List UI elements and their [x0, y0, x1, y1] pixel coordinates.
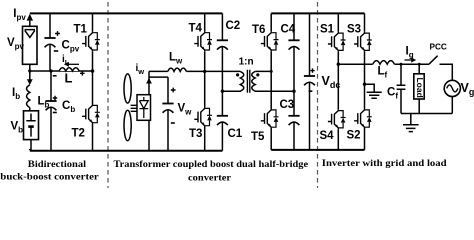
- svg-text:S1: S1: [320, 24, 335, 36]
- svg-text:T4: T4: [189, 23, 203, 35]
- svg-text:Transformer coupled boost dual: Transformer coupled boost dual half-brid…: [114, 159, 309, 170]
- svg-text:PCC: PCC: [430, 43, 447, 52]
- svg-text:Load: Load: [415, 78, 425, 98]
- svg-text:C2: C2: [226, 20, 241, 32]
- svg-text:converter: converter: [188, 173, 232, 184]
- svg-text:S2: S2: [347, 130, 361, 142]
- svg-text:buck-boost converter: buck-boost converter: [0, 171, 99, 182]
- svg-text:T6: T6: [252, 24, 265, 36]
- svg-text:Bidirectional: Bidirectional: [28, 159, 87, 170]
- svg-text:1:n: 1:n: [239, 57, 254, 68]
- svg-text:Inverter with grid and load: Inverter with grid and load: [322, 158, 447, 169]
- svg-text:S3: S3: [347, 24, 361, 36]
- svg-text:L: L: [65, 71, 73, 86]
- svg-text:C1: C1: [228, 128, 243, 140]
- svg-text:S4: S4: [320, 130, 335, 142]
- svg-text:T2: T2: [72, 127, 85, 139]
- svg-text:C4: C4: [281, 24, 296, 36]
- svg-text:T3: T3: [189, 128, 202, 140]
- svg-text:T1: T1: [74, 23, 88, 35]
- svg-text:C3: C3: [280, 99, 295, 111]
- svg-text:T5: T5: [251, 131, 265, 143]
